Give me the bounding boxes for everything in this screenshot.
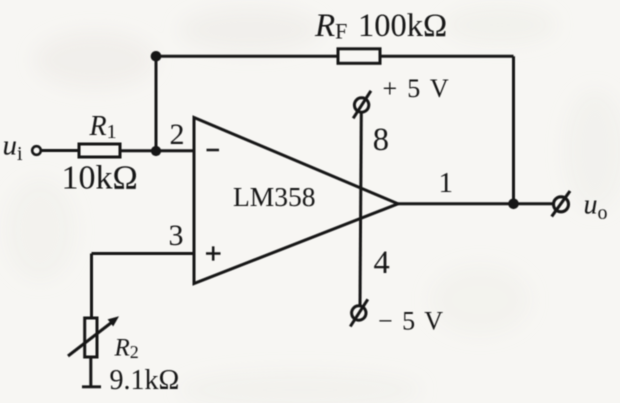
svg-text:3: 3	[169, 219, 184, 252]
svg-text:8: 8	[373, 122, 389, 158]
wire pin3 vertical	[90, 254, 93, 319]
resistor RF	[338, 49, 380, 64]
variable resistor R2 body	[85, 318, 97, 357]
svg-text:LM358: LM358	[233, 181, 316, 212]
wire feedback right segment	[380, 55, 514, 58]
svg-text:− 5 V: − 5 V	[378, 307, 444, 336]
variable resistor R2 arrow	[68, 323, 112, 357]
resistor R1	[79, 144, 120, 157]
node junction output	[508, 199, 519, 210]
svg-text:4: 4	[374, 245, 390, 281]
svg-text:2: 2	[170, 118, 185, 151]
wire feedback left segment	[156, 55, 338, 58]
wire R2 to ground	[89, 357, 92, 387]
power wire pin8 to pin4	[360, 112, 361, 305]
output terminal uo	[552, 191, 570, 217]
wire pin3 horizontal	[92, 252, 194, 255]
op-amp U1 LM358 triangle	[194, 118, 398, 284]
input terminal ui	[32, 146, 41, 155]
svg-text:10kΩ: 10kΩ	[62, 160, 138, 197]
plus sign non-inverting input	[206, 246, 221, 260]
wire R1 to op-amp pin2	[120, 149, 193, 152]
svg-text:+ 5 V: + 5 V	[383, 74, 451, 103]
wire vertical to feedback	[155, 56, 158, 151]
wire output	[398, 202, 553, 205]
node junction feedback left	[151, 51, 162, 62]
minus sign inverting input	[207, 149, 220, 152]
terminal +5V	[353, 91, 371, 119]
terminal -5V	[350, 299, 368, 326]
svg-text:R1: R1	[89, 111, 117, 143]
ground	[82, 385, 101, 388]
wire feedback right vertical	[512, 56, 515, 204]
svg-text:1: 1	[439, 167, 454, 199]
svg-text:ui: ui	[3, 130, 24, 166]
svg-text:RF 100kΩ: RF 100kΩ	[314, 8, 447, 44]
svg-text:9.1kΩ: 9.1kΩ	[110, 365, 180, 396]
wire input to R1	[42, 149, 80, 152]
svg-text:R2: R2	[114, 335, 139, 363]
node junction inverting input	[151, 146, 161, 156]
